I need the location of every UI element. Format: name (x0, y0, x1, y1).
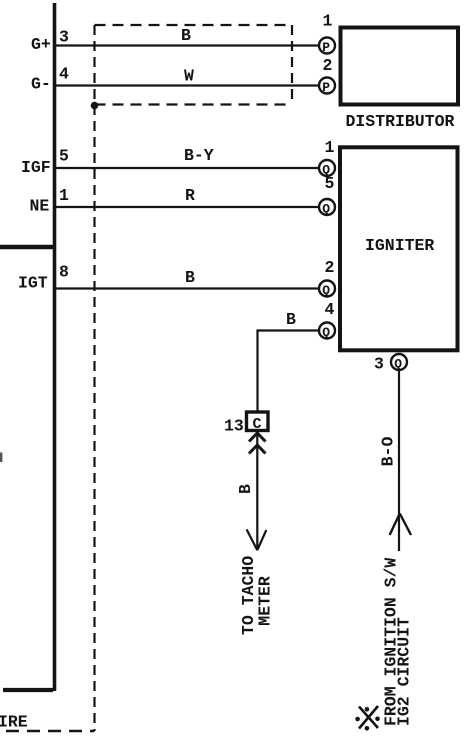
svg-text:Q: Q (394, 357, 402, 372)
shield dashed wire bottom horizontal (6, 730, 95, 733)
wire from ignition switch to igniter pin 3 (398, 370, 400, 551)
connector pin Q4 (319, 323, 335, 341)
svg-text:G-: G- (31, 75, 51, 94)
svg-text:Q: Q (322, 325, 330, 340)
connector 13 C box (247, 412, 269, 431)
svg-text:4: 4 (325, 300, 335, 319)
wire IGT to igniter pin 2 (56, 287, 319, 289)
svg-text:Q: Q (322, 202, 330, 217)
svg-text:DISTRIBUTOR: DISTRIBUTOR (346, 112, 455, 131)
svg-text:G+: G+ (31, 35, 51, 54)
wire G+ to distributor pin 1 (56, 44, 319, 46)
svg-text:B-O: B-O (379, 437, 398, 467)
svg-text:IGF: IGF (21, 158, 51, 177)
shielded-wire dashed box right (291, 25, 293, 104)
svg-text:B: B (181, 26, 191, 45)
connector pin Q5 (319, 199, 335, 217)
svg-text:C: C (253, 416, 262, 433)
svg-text:IG2 CIRCUIT: IG2 CIRCUIT (395, 617, 414, 726)
svg-text:P: P (322, 40, 330, 55)
wire G- to distributor pin 2 (56, 84, 319, 86)
wire B from igniter pin 4 to connector 13C (corner) (258, 331, 320, 412)
svg-text:4: 4 (59, 65, 69, 84)
svg-text:5: 5 (325, 174, 335, 193)
svg-text:13: 13 (224, 417, 244, 436)
arrowhead from ignition (chevron up) (390, 514, 411, 536)
svg-text:B: B (236, 484, 255, 494)
svg-text:NE: NE (30, 197, 50, 216)
svg-text:5: 5 (59, 147, 69, 166)
connector pin Q2 (319, 281, 335, 299)
text fragment at left edge (0, 453, 2, 463)
svg-text:METER: METER (256, 576, 275, 626)
svg-text:Q: Q (322, 283, 330, 298)
svg-text:R: R (185, 186, 195, 205)
svg-text:2: 2 (323, 56, 333, 75)
shielded-wire dashed box top (95, 24, 293, 26)
svg-text:1: 1 (323, 12, 333, 31)
svg-text:P: P (322, 80, 330, 95)
ECU left boundary (vertical edge) (53, 3, 57, 691)
distributor box (341, 28, 459, 105)
ECU internal edge stub (0, 245, 53, 250)
ECU bottom edge (3, 688, 53, 692)
svg-text:IRE: IRE (0, 713, 28, 732)
svg-text:2: 2 (325, 258, 335, 277)
wire NE to igniter pin 5 (56, 206, 319, 208)
shield drain dashed wire vertical (93, 25, 95, 731)
svg-text:3: 3 (59, 28, 69, 47)
arrowhead to tacho meter (247, 529, 267, 550)
igniter box (340, 147, 458, 350)
connector pin Q1 (319, 160, 335, 178)
wire IGF to igniter pin 1 (56, 167, 319, 169)
connector pin P1 (319, 38, 335, 56)
wire to tacho meter (256, 432, 258, 550)
connector continuation chevrons (249, 433, 266, 454)
svg-text:W: W (184, 67, 194, 86)
svg-text:1: 1 (59, 186, 69, 205)
svg-text:B-Y: B-Y (184, 146, 214, 165)
svg-text:B: B (286, 310, 296, 329)
svg-text:1: 1 (325, 138, 335, 157)
connector pin Q3 (391, 354, 407, 372)
svg-text:IGT: IGT (18, 274, 48, 293)
svg-text:IGNITER: IGNITER (365, 236, 434, 255)
svg-text:8: 8 (59, 263, 69, 282)
svg-text:3: 3 (374, 355, 384, 374)
shielded-wire dashed box bottom (95, 103, 293, 105)
svg-text:B: B (185, 268, 195, 287)
shield junction dot (91, 102, 99, 110)
connector pin P2 (319, 78, 335, 96)
reference mark (kome) (355, 706, 380, 731)
